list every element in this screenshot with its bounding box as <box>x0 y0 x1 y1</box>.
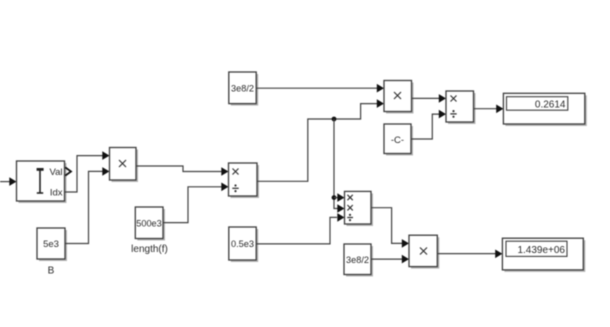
wire P3 out to product P4 input1 <box>371 208 403 244</box>
product P1 shadow <box>112 150 139 183</box>
wire divide D1 out to product P2 input2 <box>257 104 378 182</box>
svg-text:length(f): length(f) <box>131 244 168 255</box>
svg-text:0.2614: 0.2614 <box>535 100 566 111</box>
port arrow into minmax <box>9 177 16 186</box>
wire D2 out to display 0.2614 <box>474 108 498 110</box>
svg-text:-C-: -C- <box>391 135 404 146</box>
product P4 shadow <box>411 237 439 268</box>
svg-text:0.5e3: 0.5e3 <box>231 239 254 249</box>
svg-text:B: B <box>48 266 55 277</box>
val unconnected output port <box>65 167 71 175</box>
product P3 shadow <box>347 193 374 226</box>
label length(f) <box>131 244 168 255</box>
svg-text:5e3: 5e3 <box>43 239 59 250</box>
wire Idx to product P1 input1 <box>65 156 104 192</box>
product P2 shadow <box>386 83 414 114</box>
wire 5e3 to product P1 input2 <box>65 171 103 243</box>
constant -C- <box>384 124 411 154</box>
display 0.2614 <box>503 93 584 124</box>
product P3 <box>345 191 372 224</box>
junction dot at P3 input1 <box>332 195 337 200</box>
divide D1 <box>229 163 258 196</box>
wire junction down to product P3 <box>334 119 338 209</box>
constant 3e8/2 top shadow <box>231 74 258 106</box>
constant -C- shadow <box>386 126 413 156</box>
divide D2 shadow <box>448 93 476 124</box>
product P2 <box>384 81 412 112</box>
svg-text:Val: Val <box>49 167 62 178</box>
constant 500e3 shadow <box>137 209 165 241</box>
wire -C- to divide D2 input2 <box>411 114 440 139</box>
product P1 <box>110 148 137 181</box>
constant 5e3 shadow <box>39 230 67 261</box>
divide D1 shadow <box>231 165 260 198</box>
divide D2 <box>446 91 474 122</box>
display 1.439e+06 <box>502 238 583 270</box>
wire P1 out to divide D1 input1 <box>136 166 222 172</box>
label B <box>48 266 55 277</box>
wire 500e3 to divide D1 input2 <box>163 187 222 223</box>
constant 3e8/2 bottom <box>344 244 371 275</box>
junction node dot <box>332 117 337 122</box>
constant 3e8/2 bottom shadow <box>346 246 373 277</box>
wire 3e8/2 bottom to product P4 input2 <box>371 258 403 260</box>
svg-text:1.439e+06: 1.439e+06 <box>517 245 565 256</box>
wire 0.5e3 to product P3 input3 <box>256 217 337 244</box>
constant 3e8/2 top <box>229 72 256 104</box>
product P4 <box>409 235 437 266</box>
constant 500e3 <box>135 207 163 239</box>
svg-text:3e8/2: 3e8/2 <box>231 84 254 94</box>
svg-text:500e3: 500e3 <box>136 219 162 229</box>
wire P2 out to divide D2 input1 <box>412 97 440 99</box>
svg-text:3e8/2: 3e8/2 <box>346 255 369 265</box>
wire 3e8/2 top to product P2 input1 <box>256 87 377 89</box>
minmax block U1 shadow <box>19 163 67 203</box>
svg-text:Idx: Idx <box>50 188 63 199</box>
wire branch to P3 input1 <box>334 197 338 199</box>
wire P4 out to display 1.439e+06 <box>437 253 496 255</box>
constant 0.5e3 shadow <box>231 229 258 262</box>
minmax block U1 <box>17 161 65 201</box>
constant 5e3 <box>37 228 65 259</box>
display 0.2614 shadow <box>505 95 586 126</box>
display 1.439e+06 shadow <box>504 240 585 272</box>
wire input to minmax <box>0 181 10 183</box>
constant 0.5e3 <box>229 227 256 260</box>
